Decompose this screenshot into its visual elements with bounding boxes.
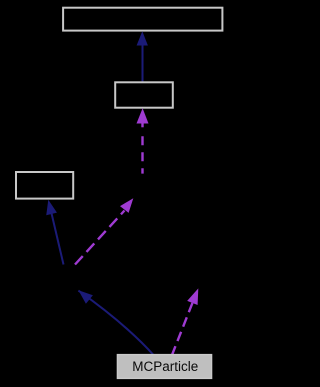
inheritance arrow: middle box to top box (solid midnightblue) [137, 31, 148, 82]
node box middle (class, label hidden) [115, 82, 173, 107]
inheritance arrow: MCParticle to hidden node (solid midnightblue) [78, 290, 154, 355]
svg-text:MCParticle: MCParticle [132, 359, 198, 374]
inheritance arrow: hidden node to left box (solid midnightblue) [46, 200, 63, 265]
node box left (class, label hidden) [16, 172, 73, 199]
node box top (base class, label hidden) [63, 8, 222, 31]
usage arrow: MCParticle to hidden node right (dashed darkorchid) [172, 288, 199, 355]
node box MCParticle (current class, grey filled) [117, 355, 211, 379]
usage arrow: vertical dashed darkorchid into middle box bottom [137, 108, 149, 173]
usage arrow: diagonal dashed darkorchid from hidden node to edge label area [75, 198, 133, 264]
